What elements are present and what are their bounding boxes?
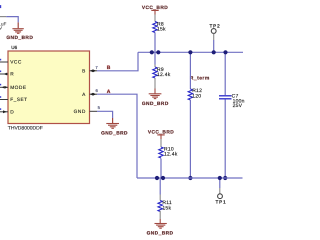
wire top bus to R12 bbox=[189, 52, 191, 89]
svg-text:15k: 15k bbox=[157, 27, 166, 33]
test point TP2 bbox=[210, 24, 221, 41]
junction bbox=[150, 50, 154, 54]
svg-text:5: 5 bbox=[98, 105, 101, 110]
wire R8 to top bus bbox=[154, 33, 156, 53]
pin MODE (left) bbox=[0, 84, 27, 91]
wire top bus to C7 bbox=[224, 52, 226, 95]
junction bbox=[155, 176, 159, 180]
wire R11 to ground bbox=[159, 211, 161, 223]
resistor R10 12.4k bbox=[159, 139, 178, 158]
ground GND_BRD (R11) bbox=[155, 224, 167, 229]
junction bbox=[188, 50, 192, 54]
wire net A (pin 6 down to bottom bus) bbox=[97, 94, 137, 178]
wire R10 to bottom bus bbox=[160, 159, 162, 179]
svg-text:GND: GND bbox=[74, 109, 86, 115]
svg-text:TP1: TP1 bbox=[216, 199, 227, 204]
wire (top-left, from cropped capacitor to ground) bbox=[0, 17, 18, 29]
junction bbox=[161, 176, 165, 180]
pin VCC (left) bbox=[0, 59, 22, 66]
capacitor value label fragment (cropped at left edge) bbox=[0, 5, 6, 31]
ground GND_BRD (top-left) bbox=[12, 29, 23, 34]
svg-text:120: 120 bbox=[192, 93, 201, 99]
pin 5 GND (right) bbox=[74, 105, 101, 115]
power VCC_BRD (top) bbox=[142, 5, 168, 15]
wire R9 to ground bbox=[154, 78, 156, 94]
svg-text:F_SET: F_SET bbox=[10, 97, 27, 103]
svg-text:VCC: VCC bbox=[10, 60, 22, 66]
svg-text:7: 7 bbox=[95, 65, 98, 70]
resistor R11 15k bbox=[158, 195, 172, 212]
junction bbox=[223, 50, 227, 54]
svg-text:B: B bbox=[82, 69, 86, 75]
pin F_SET (left) bbox=[0, 96, 28, 103]
svg-text:12.4k: 12.4k bbox=[164, 152, 178, 158]
pin D (left) bbox=[0, 108, 14, 115]
top bus wire bbox=[138, 51, 243, 53]
svg-text:R: R bbox=[10, 72, 14, 78]
net label R_term bbox=[190, 76, 210, 82]
ground label GND_BRD (IC pin 5) bbox=[101, 130, 128, 136]
svg-text:25V: 25V bbox=[233, 103, 243, 109]
svg-text:A: A bbox=[107, 89, 111, 95]
wire GND net (pin 5 to ground) bbox=[97, 111, 113, 123]
wire R12 to bottom bus bbox=[189, 100, 191, 178]
wire C7 to bottom bus bbox=[224, 100, 226, 179]
svg-text:D: D bbox=[10, 110, 14, 116]
svg-text:MODE: MODE bbox=[10, 85, 26, 91]
resistor R12 120 bbox=[188, 88, 202, 100]
junction bbox=[223, 176, 227, 180]
net label B bbox=[107, 65, 111, 71]
bottom bus wire bbox=[137, 177, 243, 179]
junction bbox=[212, 50, 216, 54]
test point TP1 bbox=[216, 188, 227, 204]
ground label GND_BRD (R11) bbox=[147, 231, 174, 237]
svg-text:TP2: TP2 bbox=[210, 24, 221, 29]
wire top bus to R9 bbox=[154, 52, 156, 64]
svg-text:B: B bbox=[107, 65, 111, 71]
wire bottom bus to TP1 bbox=[219, 178, 221, 188]
pin 6 A (right) bbox=[82, 88, 98, 98]
svg-text:15k: 15k bbox=[162, 205, 171, 211]
svg-text:GND_BRD: GND_BRD bbox=[142, 101, 169, 107]
ground label GND_BRD (top-left) bbox=[6, 35, 33, 41]
svg-text:GND_BRD: GND_BRD bbox=[147, 231, 174, 237]
ground label GND_BRD (R9) bbox=[142, 101, 169, 107]
pin R (left) bbox=[0, 71, 14, 78]
resistor R8 15k bbox=[153, 15, 166, 33]
net label A bbox=[107, 89, 111, 95]
junction bbox=[156, 50, 160, 54]
resistor R9 12.4k bbox=[153, 65, 171, 79]
svg-text:GND_BRD: GND_BRD bbox=[6, 35, 33, 41]
svg-text:6: 6 bbox=[96, 88, 99, 93]
svg-text:A: A bbox=[82, 92, 86, 98]
IC refdes U6 bbox=[11, 45, 17, 50]
ground GND_BRD (IC pin 5) bbox=[106, 124, 119, 129]
IC U6 body bbox=[8, 51, 90, 124]
ground GND_BRD (R9) bbox=[149, 94, 162, 99]
IC part number THVD8000DDF bbox=[8, 126, 43, 132]
wire TP2 to top bus bbox=[213, 40, 215, 52]
junction bbox=[218, 176, 222, 180]
svg-text:U6: U6 bbox=[11, 45, 17, 50]
power VCC_BRD (R10) bbox=[148, 129, 174, 139]
wire bottom bus to R11 bbox=[159, 178, 161, 195]
wire net B (pin 7 to top bus) bbox=[97, 52, 138, 71]
svg-text:12.4k: 12.4k bbox=[157, 72, 171, 78]
capacitor C7 100n 25V bbox=[219, 94, 245, 110]
junction bbox=[188, 176, 192, 180]
svg-text:R_term: R_term bbox=[190, 76, 210, 82]
svg-text:THVD8000DDF: THVD8000DDF bbox=[8, 126, 43, 132]
pin 7 B (right) bbox=[82, 65, 98, 75]
svg-text:GND_BRD: GND_BRD bbox=[101, 130, 128, 136]
